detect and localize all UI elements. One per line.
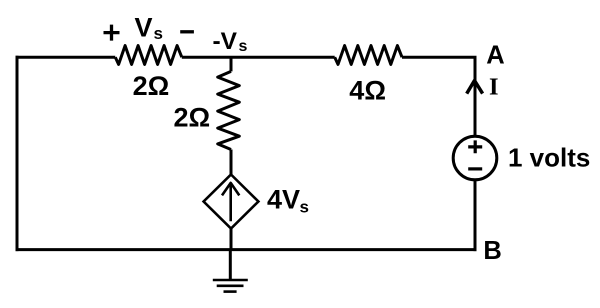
svg-text:4V: 4V [267, 185, 300, 215]
wire top middle segment [182, 56, 335, 59]
wire top left segment [16, 56, 116, 59]
ground bar 2 [217, 284, 244, 287]
dependent source arrow [222, 183, 239, 221]
svg-text:-V: -V [213, 28, 238, 55]
svg-text:4Ω: 4Ω [349, 75, 386, 105]
label minus sign of Vs [180, 30, 194, 33]
ground bar 3 [224, 290, 237, 293]
voltage source V1 circle [453, 136, 497, 180]
resistor R2 4ohm horizontal [335, 46, 402, 65]
svg-text:2Ω: 2Ω [174, 103, 211, 133]
wire left vertical [16, 56, 19, 251]
dependent source U1 diamond [204, 175, 259, 229]
svg-text:1 volts: 1 volts [508, 143, 590, 173]
svg-text:2Ω: 2Ω [133, 71, 170, 101]
wire middle branch upper stub [230, 57, 233, 71]
current arrow I on right wire [467, 81, 483, 94]
wire middle branch between resistor and diamond [230, 150, 233, 177]
resistor R1 2ohm horizontal [115, 46, 182, 65]
voltage source plus sign [468, 140, 482, 153]
ground stub [229, 250, 232, 280]
voltage source minus sign [468, 167, 482, 170]
svg-text:A: A [486, 41, 504, 69]
label plus sign of Vs [104, 25, 120, 41]
wire top right segment [402, 56, 477, 59]
wire right vertical upper [474, 57, 477, 136]
wire middle branch below diamond [230, 227, 233, 250]
svg-text:s: s [239, 38, 248, 55]
svg-text:s: s [154, 24, 163, 43]
svg-text:I: I [489, 73, 499, 100]
wire bottom [16, 248, 477, 251]
resistor R3 2ohm vertical [218, 71, 240, 149]
wire right vertical lower [474, 180, 477, 251]
ground bar 1 [213, 279, 248, 282]
svg-text:s: s [300, 198, 309, 217]
svg-text:B: B [483, 237, 501, 265]
svg-text:V: V [135, 13, 153, 43]
